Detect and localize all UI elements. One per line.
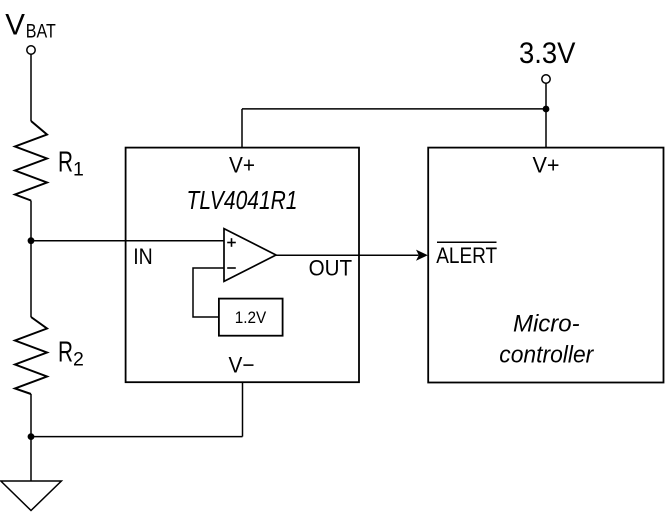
- op-amp + input mark: [227, 238, 236, 247]
- svg-text:BAT: BAT: [26, 21, 56, 42]
- svg-text:controller: controller: [499, 341, 594, 368]
- svg-text:2: 2: [73, 349, 84, 371]
- svg-text:V−: V−: [229, 353, 255, 378]
- label Micro-controller: [499, 310, 594, 368]
- terminal 3.3V: [542, 75, 550, 83]
- wire reference to - input: [193, 268, 224, 317]
- svg-text:TLV4041R1: TLV4041R1: [187, 187, 298, 215]
- wire V- pin down: [242, 382, 244, 436]
- svg-text:R: R: [58, 147, 73, 179]
- op-amp - input mark: [227, 267, 236, 269]
- ground: [1, 481, 62, 511]
- svg-text:1: 1: [73, 159, 84, 181]
- wire R2 to ground: [30, 394, 32, 481]
- wire top supply rail: [242, 108, 546, 110]
- label R1: [58, 147, 84, 181]
- arrowhead into ALERT: [416, 250, 428, 261]
- svg-text:OUT: OUT: [309, 256, 353, 281]
- node divider junction: [28, 237, 35, 244]
- svg-text:ALERT: ALERT: [436, 243, 497, 268]
- wire IN (divider to op-amp + input): [31, 240, 224, 242]
- label R2: [58, 337, 84, 371]
- svg-text:IN: IN: [133, 244, 153, 269]
- wire R1 to R2: [30, 201, 32, 318]
- svg-text:R: R: [58, 337, 73, 369]
- wire OUT to microcontroller: [276, 254, 419, 256]
- wire VBAT to R1: [30, 54, 32, 121]
- svg-text:3.3V: 3.3V: [519, 37, 576, 70]
- wire ground node to V-: [31, 436, 243, 438]
- node ground junction: [28, 433, 35, 440]
- pin label ALERT with overline: [436, 242, 497, 268]
- resistor R2: [15, 317, 47, 394]
- comparator box U1 TLV4041R1: [126, 148, 359, 383]
- net label VBAT: [5, 8, 56, 42]
- svg-text:V: V: [5, 8, 25, 41]
- wire V+ pin up: [241, 109, 243, 148]
- wire 3.3V to microcontroller V+: [545, 83, 547, 147]
- node supply junction: [543, 106, 550, 113]
- svg-text:V+: V+: [229, 152, 255, 177]
- svg-text:Micro-: Micro-: [513, 310, 580, 337]
- resistor R1: [15, 121, 47, 201]
- op-amp U1: [224, 229, 276, 282]
- svg-text:V+: V+: [533, 152, 560, 177]
- voltage reference box 1.2V: [219, 299, 283, 336]
- microcontroller box U2: [428, 148, 663, 383]
- terminal VBAT: [27, 46, 35, 54]
- svg-text:1.2V: 1.2V: [235, 309, 267, 327]
